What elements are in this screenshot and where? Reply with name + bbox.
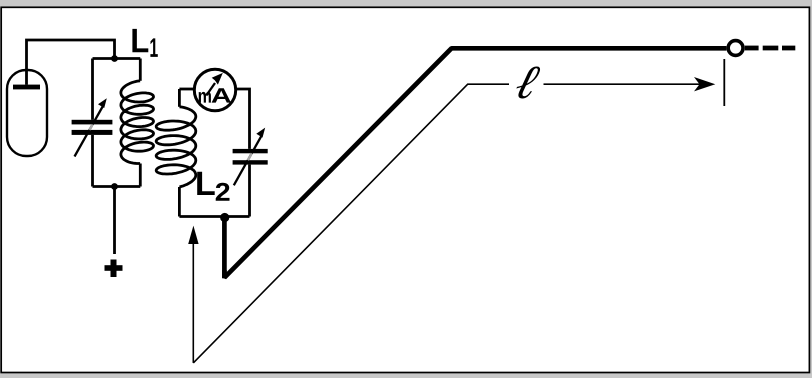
label L1 [132,29,148,52]
wire L2 top left [179,88,194,91]
wire tube plate to L1 tank top [27,40,115,85]
arrowhead right [694,77,715,91]
inductor L1 [121,59,154,187]
label L2 [197,172,214,195]
wire left branch upper [91,59,94,120]
leader line diagonal [193,84,509,363]
antenna wire feeder (thick) [224,48,726,277]
wire L1 tank top [93,57,141,60]
end tick mark [723,59,725,106]
wire L1 tank bottom [93,185,141,188]
wire L2 right lower [248,165,251,217]
milliammeter mA [194,69,235,110]
wire left branch lower [91,135,94,187]
arrow pointing up at feed point [192,243,194,363]
wire to plus supply [113,187,116,255]
inductor L2 [156,89,196,217]
variable capacitor C1 [72,98,113,156]
dashed continuation [763,46,796,51]
variable capacitor C2 [233,128,268,186]
vacuum tube oscillator [7,70,47,156]
node feed point [220,213,229,222]
leader line horizontal after label [544,83,704,85]
wire L2 tank bottom [179,215,249,218]
wire L2 top right [236,89,250,149]
node top of tank [111,55,118,62]
label script l (length) [513,67,541,99]
wire thick corner stub [222,270,227,278]
open end insulator circle [728,41,743,56]
node bottom of tank [111,183,118,190]
plus terminal [105,260,123,278]
wire continuation stub [745,46,759,51]
